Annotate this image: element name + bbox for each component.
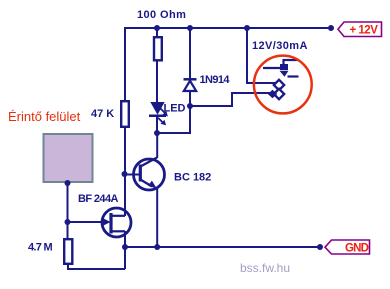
wire ground rail (125, 246, 320, 248)
node LED/collector junction dot (154, 130, 160, 136)
LED D2 (149, 102, 168, 125)
power flag +12V (338, 22, 382, 37)
svg-text:47 K: 47 K (91, 108, 114, 120)
svg-text:1N914: 1N914 (200, 74, 231, 86)
svg-text:+ 12V: + 12V (350, 25, 379, 37)
wire diode anode stub (189, 91, 191, 106)
wire top rail to relay coil top (247, 28, 275, 83)
relay K1 contact (263, 59, 299, 77)
node ground rail end dot (317, 244, 323, 250)
node diode anode junction dot (187, 103, 193, 109)
node ground rail dot at Q2 source (122, 244, 128, 250)
resistor R3 4.7 M (64, 239, 72, 264)
wire 47K to Q2 drain (124, 127, 126, 216)
wire left column (top rail to 47K) (124, 27, 126, 101)
svg-text:bss.fw.hu: bss.fw.hu (240, 261, 290, 275)
node gate junction dot (65, 219, 71, 225)
diode D1 1N914 (184, 79, 197, 91)
svg-text:BF 244A: BF 244A (78, 193, 118, 205)
wire pad to gate node (67, 183, 69, 239)
relay highlight circle (254, 56, 312, 114)
resistor R1 100 Ohm (154, 37, 162, 60)
transistor Q1 BC182 (126, 158, 165, 191)
svg-text:12V/30mA: 12V/30mA (252, 40, 308, 52)
wire top rail +12V (124, 27, 331, 29)
resistor R2 47 K (121, 101, 129, 127)
relay K1 coil (268, 80, 284, 99)
wire node to relay coil bottom (190, 93, 270, 106)
svg-text:Érintő felület: Érintő felület (8, 109, 81, 124)
svg-text:100 Ohm: 100 Ohm (137, 9, 186, 21)
wire gate (68, 221, 105, 223)
svg-text:BC 182: BC 182 (174, 172, 211, 184)
node top rail dot at coil feed (244, 25, 250, 31)
wire collector up to node (156, 132, 158, 158)
wire R1 to LED (156, 60, 158, 103)
wire diode cathode to top rail (189, 28, 191, 79)
node top rail dot at R1 (154, 25, 160, 31)
node base junction dot (122, 171, 128, 177)
node ground rail dot at Q1 emitter (154, 244, 160, 250)
node pad dot (65, 180, 71, 186)
transistor Q2 BF244A (102, 208, 131, 237)
wire R1 top stub (156, 28, 158, 37)
power flag GND (325, 240, 370, 255)
wire source down to ground rail (124, 231, 126, 269)
wire emitter down to ground rail (156, 189, 158, 247)
touch pad plate (44, 134, 93, 182)
wire LED cathode to node (156, 116, 158, 133)
svg-text:LED: LED (164, 103, 186, 115)
node top rail end dot (328, 25, 334, 31)
wire node to diode column (157, 106, 190, 133)
node top rail dot at D1 (187, 25, 193, 31)
svg-text:4.7 M: 4.7 M (28, 242, 53, 254)
svg-text:GND: GND (345, 243, 369, 255)
wire 4.7M bottom loop (68, 263, 125, 269)
